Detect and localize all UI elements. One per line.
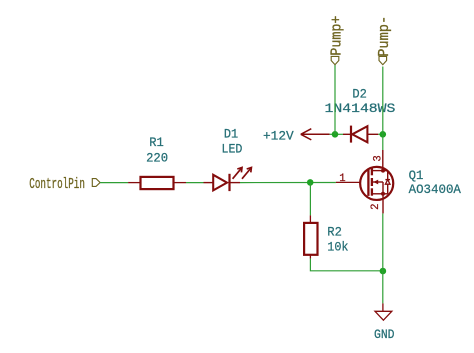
svg-text:AO3400A: AO3400A (409, 182, 461, 197)
svg-text:R1: R1 (149, 135, 164, 150)
svg-text:+12V: +12V (263, 128, 294, 143)
svg-text:ControlPin: ControlPin (29, 177, 85, 193)
power label +12V arrow (301, 129, 330, 140)
hierarchical label ControlPin (29, 177, 100, 193)
LED arrow 2 (242, 168, 251, 179)
junction +12V node (332, 131, 339, 138)
diode D2 (343, 126, 378, 143)
svg-text:D2: D2 (352, 87, 367, 102)
LED arrow 1 (233, 168, 242, 179)
transistor Q1 (336, 150, 393, 213)
Q1 circle body (360, 167, 393, 200)
resistor R1 (128, 177, 186, 189)
svg-text:GND: GND (374, 327, 395, 342)
resistor R2 (304, 215, 317, 258)
wire D2 to drain node (378, 133, 383, 135)
svg-text:R2: R2 (327, 224, 342, 239)
svg-text:Pump-: Pump- (377, 16, 393, 57)
wire D1 to gate junction (240, 182, 336, 184)
wire junction down to R2 (309, 183, 311, 216)
hierarchical label Pump- (377, 16, 393, 65)
svg-text:D1: D1 (224, 127, 238, 142)
wire Pump- down (382, 67, 384, 135)
svg-text:3: 3 (373, 155, 385, 161)
Q1 source internal (372, 193, 383, 195)
svg-text:220: 220 (146, 151, 168, 166)
junction gate/R2 node (307, 179, 314, 186)
wire +12V to D2 (330, 133, 343, 135)
wire drain node down to Q1 (382, 134, 384, 150)
Q1 body arrow (373, 181, 383, 183)
svg-text:10k: 10k (327, 239, 348, 254)
wire Pump+ down (334, 65, 336, 135)
junction drain node (380, 131, 387, 138)
hierarchical label Pump+ (329, 16, 345, 65)
svg-text:Pump+: Pump+ (329, 16, 345, 56)
LED D1 (204, 168, 252, 192)
junction source/GND node (380, 268, 387, 275)
svg-text:2: 2 (370, 204, 382, 210)
svg-text:Q1: Q1 (409, 168, 424, 183)
wire R1 to D1 (186, 182, 204, 184)
wire R2 bottom to source node (310, 259, 382, 271)
Q1 drain internal (372, 170, 383, 172)
svg-text:LED: LED (222, 142, 243, 157)
Q1 gate bar (367, 170, 369, 196)
wire source column down to GND (382, 213, 384, 303)
svg-text:1: 1 (339, 173, 345, 185)
Q1 gate pin wire (336, 181, 360, 183)
wire ControlPin to R1 (100, 182, 128, 184)
Q1 channel segments (371, 168, 373, 175)
Q1 body diode (383, 170, 388, 172)
ground (375, 303, 392, 320)
